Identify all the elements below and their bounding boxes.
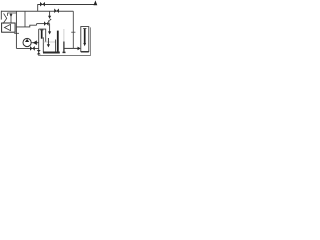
wire V3 lower with flow arrow (49, 24, 51, 32)
vertical wire V4 (72, 11, 74, 48)
wire stub from rail to top line (37, 4, 39, 11)
bottom return rail (39, 55, 91, 57)
plunger of box A (41, 30, 43, 38)
top supply line to press (38, 4, 95, 6)
accumulator box (81, 27, 89, 52)
wire H3 (16, 25, 36, 27)
relief valve body (2, 23, 16, 32)
wire jog (36, 24, 38, 26)
spring of relief valve (3, 13, 7, 23)
suction line H6 (16, 47, 38, 49)
arrow into accumulator (78, 47, 81, 51)
tank bottom (43, 52, 60, 54)
check valve CV5 (33, 41, 36, 45)
main rail (1, 10, 73, 12)
tick on V4 (71, 31, 75, 33)
ram pipe into tank T2 (57, 31, 59, 52)
check valve CV1 (40, 2, 45, 7)
arrow to consumer (up) (94, 0, 98, 5)
tick on V1 (14, 32, 19, 34)
check valve CV6 (vertical) (37, 50, 41, 54)
vertical line V5 (38, 29, 40, 56)
tank T2 right wall (63, 29, 65, 42)
check valve CV3 (44, 21, 49, 26)
tank T1 level line (43, 41, 55, 43)
check valve CV4 (30, 46, 35, 51)
pump outlet wire (31, 42, 39, 44)
pilot line with arrow (8, 13, 17, 16)
check valve CV2 (54, 9, 59, 14)
cylinder box A (39, 29, 46, 42)
wire drop x25 (24, 11, 26, 27)
accumulator plunger (84, 29, 86, 43)
wire V3 upper with flow arrow (49, 11, 51, 16)
right return wire V6 (90, 27, 92, 56)
tank T1 right wall (55, 40, 57, 53)
pump P1 (23, 38, 31, 46)
spring on V3 (48, 19, 51, 23)
wire H5 to accumulator (64, 47, 78, 49)
relief valve arrow (4, 24, 10, 30)
tank T1 left wall (42, 37, 44, 52)
vertical line V1 (15, 11, 17, 48)
wire H4 (37, 23, 50, 25)
wire left drop (0, 11, 2, 20)
tank T1 return pipe (47, 38, 49, 44)
